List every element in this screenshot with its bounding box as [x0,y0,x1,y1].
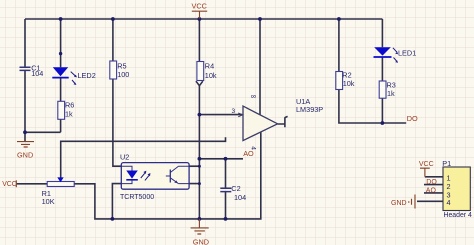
svg-text:C2: C2 [231,184,240,193]
svg-text:DO: DO [407,114,418,123]
svg-text:VCC: VCC [2,181,17,188]
svg-text:∞: ∞ [251,92,256,101]
svg-text:GND: GND [17,150,33,159]
svg-text:AO: AO [426,187,437,194]
svg-text:3: 3 [232,108,236,115]
svg-text:100: 100 [117,70,129,79]
svg-text:10k: 10k [343,79,355,88]
svg-text:LED2: LED2 [78,71,96,80]
svg-text:LM393P: LM393P [296,105,323,114]
svg-text:10K: 10K [42,197,55,206]
svg-text:104: 104 [234,193,246,202]
svg-text:LED1: LED1 [398,49,416,58]
svg-text:VCC: VCC [192,1,207,10]
svg-text:104: 104 [31,69,43,78]
svg-text:GND: GND [391,200,407,207]
svg-text:R6: R6 [65,101,74,110]
svg-text:10k: 10k [205,71,217,80]
svg-text:R4: R4 [205,62,214,71]
svg-text:1k: 1k [387,89,395,98]
svg-text:GND: GND [193,237,209,245]
svg-text:VCC: VCC [419,161,434,168]
svg-text:P1: P1 [442,159,451,168]
svg-text:U2: U2 [120,153,129,162]
svg-text:Header 4: Header 4 [444,212,473,219]
svg-text:4: 4 [447,198,451,207]
svg-text:DO: DO [426,179,437,186]
svg-text:TCRT5000: TCRT5000 [120,194,154,201]
svg-text:AO: AO [243,149,254,158]
svg-text:1k: 1k [65,110,73,119]
